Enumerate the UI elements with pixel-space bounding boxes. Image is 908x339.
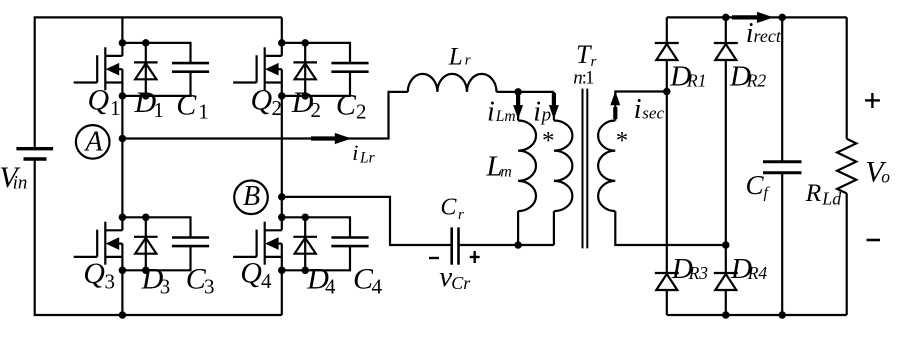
junction tank top node xyxy=(514,88,522,96)
transformer Tr core xyxy=(583,89,588,249)
capacitor C4 xyxy=(282,217,369,270)
svg-text:A: A xyxy=(83,127,103,158)
svg-text:rect: rect xyxy=(754,26,782,46)
svg-text:3: 3 xyxy=(204,275,215,299)
label Vin xyxy=(0,161,27,194)
svg-text:Q: Q xyxy=(251,84,273,117)
svg-text:3: 3 xyxy=(160,274,171,298)
label minus Vo xyxy=(867,239,881,242)
label D2 xyxy=(291,86,321,122)
label C2 xyxy=(336,88,367,123)
label iLm xyxy=(487,97,516,128)
svg-text:L: L xyxy=(448,43,463,70)
svg-text:i: i xyxy=(352,140,358,165)
diode DR1 xyxy=(655,43,679,60)
node B xyxy=(234,181,268,215)
junction leg1 bottom rail xyxy=(119,311,127,319)
label Lm xyxy=(486,151,512,183)
label ip xyxy=(533,96,551,127)
svg-text:i: i xyxy=(533,96,541,127)
junction rectifier bottom DR4 xyxy=(722,311,730,319)
svg-text:r: r xyxy=(458,207,464,223)
label plus vCr xyxy=(470,251,480,263)
capacitor C3 xyxy=(122,217,209,270)
svg-text:C: C xyxy=(746,170,765,200)
svg-text:R2: R2 xyxy=(746,71,767,91)
transistor Q1 xyxy=(74,47,123,90)
svg-text:Lm: Lm xyxy=(495,108,516,125)
label Tr xyxy=(576,40,597,70)
label Cf xyxy=(746,170,771,202)
transformer secondary winding xyxy=(598,121,615,212)
transistor Q4 xyxy=(233,222,282,265)
wire leg1 lower segment xyxy=(121,244,123,315)
svg-text:R: R xyxy=(805,178,822,207)
wire DR1 upper lead xyxy=(666,17,668,43)
junction D4 top xyxy=(301,214,309,222)
diode DR4 xyxy=(714,273,738,290)
wire secondary bottom lead xyxy=(615,211,726,245)
svg-text:4: 4 xyxy=(261,269,272,293)
diode D3 xyxy=(134,217,158,270)
svg-text:3: 3 xyxy=(105,270,116,294)
junction D3 top xyxy=(142,214,150,222)
wire DR1-DR3 leg xyxy=(666,60,668,273)
junction D2 bottom xyxy=(301,92,309,100)
junction Q2 drain xyxy=(278,39,286,47)
wire tank node down to Lm xyxy=(517,92,519,121)
svg-text:i: i xyxy=(746,18,754,49)
label irect xyxy=(746,18,782,49)
junction tank bottom node xyxy=(514,241,522,249)
label C1 xyxy=(176,88,209,123)
label vCr xyxy=(439,261,471,293)
junction node A xyxy=(119,135,127,143)
wire primary bottom lead xyxy=(553,211,555,245)
wire leg2 middle segment xyxy=(281,69,283,230)
wire Lm bottom lead xyxy=(517,211,519,245)
svg-text:Q: Q xyxy=(240,257,262,290)
label Q2 xyxy=(251,84,283,121)
label plus Vo xyxy=(865,93,880,108)
diode D4 xyxy=(293,217,317,270)
junction Q4 source xyxy=(278,267,286,275)
current arrow iLm xyxy=(514,93,523,118)
wire top rail (Vin+ to bridge) xyxy=(35,17,282,148)
label Vo xyxy=(865,155,890,188)
transistor Q3 xyxy=(74,222,123,265)
junction rectifier bottom Cf xyxy=(778,311,786,319)
label D1 xyxy=(134,86,164,122)
svg-text:4: 4 xyxy=(325,274,336,298)
diode DR3 xyxy=(655,273,679,290)
junction secondary to DR1 leg xyxy=(663,88,671,96)
capacitor Cf xyxy=(763,162,802,173)
label Lr xyxy=(448,43,471,70)
svg-text:Ld: Ld xyxy=(821,188,842,208)
wire leg1 drain segment xyxy=(121,17,123,56)
wire Cr to primary bottom xyxy=(459,244,554,246)
junction D1 bottom xyxy=(142,92,150,100)
junction D2 top xyxy=(301,39,309,47)
svg-text:R3: R3 xyxy=(688,263,709,283)
capacitor Cr xyxy=(452,227,459,264)
svg-text:in: in xyxy=(13,173,28,194)
svg-text:1: 1 xyxy=(110,96,121,120)
diode DR2 xyxy=(714,43,738,60)
inductor Lm xyxy=(518,121,536,212)
svg-text:i: i xyxy=(634,94,642,125)
wire secondary top lead xyxy=(615,92,667,121)
wire load leg upper xyxy=(846,17,848,138)
wire Lr to primary node xyxy=(497,91,554,93)
wire leg2 lower segment xyxy=(281,244,283,315)
svg-text:sec: sec xyxy=(642,104,664,123)
svg-text:*: * xyxy=(616,128,629,155)
svg-text:Q: Q xyxy=(88,84,110,117)
label Q1 xyxy=(88,84,121,121)
wire DR3 lower lead xyxy=(666,290,668,315)
resistor RLd xyxy=(837,139,856,194)
svg-text:1: 1 xyxy=(153,98,164,122)
inductor Lr xyxy=(408,74,497,92)
svg-text:Lr: Lr xyxy=(359,150,376,167)
junction Q1 drain xyxy=(119,39,127,47)
label iLr xyxy=(352,140,375,167)
battery Vin xyxy=(16,149,53,159)
wire DR2-DR4 leg xyxy=(725,60,727,273)
junction secondary bottom DR4 leg xyxy=(722,241,730,249)
label C3 xyxy=(186,263,215,299)
wire leg1 middle segment xyxy=(121,69,123,230)
label DR1 xyxy=(669,60,706,92)
label D3 xyxy=(141,262,171,298)
svg-text:i: i xyxy=(487,97,495,128)
transformer primary winding xyxy=(554,121,573,212)
capacitor C2 xyxy=(282,43,369,96)
junction rectifier top Cf xyxy=(778,14,786,22)
transistor Q2 xyxy=(233,47,282,90)
current arrow isec xyxy=(611,92,620,119)
capacitor C1 xyxy=(122,43,209,96)
label secondary dot * xyxy=(616,128,629,155)
svg-text:1: 1 xyxy=(585,67,595,88)
junction Q1 source xyxy=(119,92,127,100)
wire Cf upper lead xyxy=(781,17,783,161)
diode D2 xyxy=(293,43,317,96)
label n:1 xyxy=(573,67,594,88)
svg-text:Cr: Cr xyxy=(451,273,471,293)
svg-text:r: r xyxy=(465,53,471,69)
wire node B to Cr xyxy=(282,197,452,245)
wire primary top lead xyxy=(553,92,555,121)
svg-text:o: o xyxy=(881,167,890,187)
svg-text:1: 1 xyxy=(198,100,209,124)
junction Q4 drain xyxy=(278,214,286,222)
node A xyxy=(76,125,110,159)
wire DR2 upper lead xyxy=(725,17,727,43)
svg-text:R1: R1 xyxy=(686,71,706,91)
svg-text:p: p xyxy=(540,104,552,125)
svg-text:C: C xyxy=(336,88,357,121)
junction D3 bottom xyxy=(142,267,150,275)
svg-text:4: 4 xyxy=(372,274,383,298)
svg-text:B: B xyxy=(243,181,260,212)
label DR3 xyxy=(671,253,708,285)
wire leg2 drain segment xyxy=(281,17,283,56)
label DR4 xyxy=(730,253,767,285)
label D4 xyxy=(306,262,336,298)
wire rectifier bottom rail xyxy=(667,314,847,316)
junction node B xyxy=(278,193,286,201)
label primary dot * xyxy=(542,128,555,155)
wire bottom rail (Vin- to bridge) xyxy=(35,159,282,315)
current arrow irect xyxy=(732,12,772,22)
label Q3 xyxy=(83,257,115,294)
wire load leg lower xyxy=(846,193,848,315)
junction D4 bottom xyxy=(301,267,309,275)
svg-text:*: * xyxy=(542,128,555,155)
junction D1 top xyxy=(142,39,150,47)
label C4 xyxy=(353,262,383,298)
label Cr xyxy=(440,195,464,223)
label minus vCr xyxy=(429,257,439,259)
label Q4 xyxy=(240,257,272,294)
wire rectifier top rail xyxy=(667,16,847,18)
junction Q3 drain xyxy=(119,214,127,222)
label isec xyxy=(634,94,665,125)
current arrow iLr xyxy=(311,133,350,143)
svg-text:R4: R4 xyxy=(747,263,768,283)
junction Q3 source xyxy=(119,267,127,275)
svg-text:Q: Q xyxy=(83,257,105,290)
current arrow ip xyxy=(550,93,559,118)
svg-text:2: 2 xyxy=(272,96,283,120)
svg-text:m: m xyxy=(500,163,512,180)
label RLd xyxy=(805,178,843,208)
junction Q2 source xyxy=(278,92,286,100)
diode D1 xyxy=(134,43,158,96)
svg-text:2: 2 xyxy=(311,98,322,122)
wire node A to Lr xyxy=(122,92,407,139)
label DR2 xyxy=(729,60,766,92)
wire DR4 lower lead xyxy=(725,290,727,315)
svg-text:C: C xyxy=(440,195,457,221)
svg-text:C: C xyxy=(176,88,197,121)
wire Cf lower lead xyxy=(781,173,783,315)
svg-text:2: 2 xyxy=(356,100,367,124)
junction rectifier top DR2 xyxy=(722,14,730,22)
